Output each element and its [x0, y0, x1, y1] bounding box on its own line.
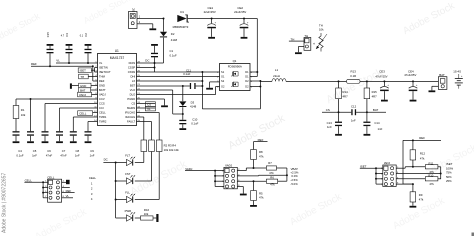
svg-text:ISET: ISET: [446, 162, 453, 166]
svg-text:FAULT: FAULT: [127, 120, 136, 124]
svg-text:R13: R13: [351, 70, 357, 74]
junction REF C15: [49, 65, 51, 67]
resistor R9 47k: [410, 184, 424, 206]
svg-text:CELL: CELL: [89, 176, 97, 180]
wire CCV to C5: [30, 99, 32, 131]
svg-text:47uF/25V: 47uF/25V: [375, 74, 387, 78]
wire CSSN to Q1 S1: [137, 71, 220, 73]
capacitor CE2 22uF/35V: [234, 6, 249, 39]
svg-text:4R7: 4R7: [372, 94, 378, 98]
svg-text:R1: R1: [21, 108, 25, 112]
svg-text:10k 10k 10k: 10k 10k 10k: [164, 148, 180, 152]
svg-text:FDS6990A: FDS6990A: [228, 65, 242, 69]
wire VADJ pin6 row: [237, 180, 266, 182]
diode D2 4148: [160, 19, 178, 64]
capacitor C15 REF bypass: [46, 32, 53, 67]
wire ISET bus pin 5: [376, 178, 383, 180]
svg-text:C14: C14: [374, 121, 380, 125]
svg-text:0.1uF: 0.1uF: [16, 154, 23, 158]
node BAT sense label: [356, 108, 386, 112]
svg-text:S1: S1: [221, 70, 225, 74]
wire REF rail to REF pin: [31, 66, 98, 81]
svg-text:S2: S2: [221, 79, 225, 83]
svg-text:D1: D1: [180, 10, 184, 14]
svg-text:FLT: FLT: [125, 153, 130, 157]
junction ISET bus 2: [375, 173, 377, 175]
junction CS C13: [338, 111, 340, 113]
node REF above R12: [403, 136, 441, 140]
connector VADJ header: [222, 164, 240, 189]
node CELL at CELL pin: [78, 111, 98, 116]
connector CELL select header: [45, 175, 61, 202]
IC U1 MAX1737 charge controller: [94, 49, 140, 126]
svg-text:1nF: 1nF: [327, 125, 332, 129]
resistor R4 10k: [156, 140, 162, 152]
svg-text:VADJ: VADJ: [79, 93, 87, 97]
wire Q1 D1 pins to input rail: [250, 72, 257, 77]
junction R9 branch: [412, 183, 414, 185]
svg-text:CCI: CCI: [99, 106, 104, 110]
svg-text:IFUCHG: IFUCHG: [125, 111, 135, 115]
wire IFACHG to R2: [137, 117, 144, 140]
ground below R9: [410, 206, 417, 208]
svg-text:REF: REF: [66, 189, 72, 193]
svg-text:TMR2: TMR2: [99, 120, 107, 124]
ground below TH header: [295, 52, 302, 54]
svg-text:C5: C5: [33, 149, 37, 153]
svg-text:1nF: 1nF: [75, 154, 80, 158]
wire BST: [137, 85, 203, 87]
svg-text:CELL: CELL: [79, 112, 87, 116]
wire DLO to Q1 G2: [137, 87, 220, 95]
resistor R15 4R7: [364, 81, 377, 112]
label ISET percentages: [446, 162, 454, 183]
junction ISET bus 3: [375, 178, 377, 180]
junction LX riser: [201, 80, 203, 82]
svg-text:10k: 10k: [319, 28, 324, 32]
wire CELL select bus: [42, 182, 44, 198]
svg-text:L1: L1: [275, 68, 279, 72]
wire DC+ to D1: [137, 18, 164, 20]
svg-text:BATT: BATT: [99, 88, 106, 92]
ground below DC connector: [149, 28, 156, 30]
resistor R3 10k: [149, 140, 155, 152]
wire TH pin2 to ground: [298, 47, 304, 53]
svg-text:47k: 47k: [429, 182, 434, 186]
capacitor C3 4.7uF VL bypass: [61, 33, 73, 63]
LED PWR: [116, 209, 136, 221]
junction rail CE3: [383, 80, 385, 82]
wire R1 to C4: [15, 119, 17, 132]
junction CSSN LX riser: [201, 71, 203, 73]
junction REF R12: [412, 139, 414, 141]
svg-text:10k: 10k: [21, 113, 26, 117]
svg-text:CCV: CCV: [99, 97, 105, 101]
svg-text:1nF: 1nF: [32, 154, 37, 158]
wire CELL bus to pin 1: [43, 181, 48, 183]
wire CELL bus to pin 7: [43, 197, 48, 199]
junction pin4 common: [440, 173, 442, 175]
wire L1 to R13: [286, 80, 347, 82]
svg-text:0.1uF: 0.1uF: [191, 122, 198, 126]
junction rail R15: [366, 80, 368, 82]
junction VLO D3 C10: [182, 113, 184, 115]
wire ISET pin2 row: [396, 167, 425, 168]
wire R2 to FLT cathode: [135, 152, 144, 163]
capacitor CE1 22uF/35V: [204, 6, 217, 39]
svg-text:ISETIN: ISETIN: [99, 66, 108, 70]
wire VADJ bus: [214, 171, 216, 187]
wire GND pin to ground: [72, 83, 98, 88]
svg-text:VADJ: VADJ: [225, 164, 233, 168]
wire LX loop below Q1: [202, 86, 260, 109]
junction DCIN C1: [154, 62, 156, 64]
svg-text:FST: FST: [125, 172, 131, 176]
node DC at DCIN pin: [145, 59, 149, 63]
svg-text:CCS: CCS: [99, 102, 105, 106]
svg-text:MBR3540T3: MBR3540T3: [173, 25, 189, 29]
connector TH header: [304, 34, 311, 50]
svg-text:47k: 47k: [270, 183, 275, 187]
svg-text:THM: THM: [99, 75, 106, 79]
svg-text:0.1uF: 0.1uF: [170, 54, 177, 58]
svg-text:BAT: BAT: [439, 73, 445, 77]
resistor R5 47k: [251, 181, 264, 205]
label R2 R3 R4 10k: [164, 143, 180, 152]
junction CCV C5: [30, 98, 32, 100]
svg-text:25%: 25%: [446, 179, 452, 183]
junction rail CE4: [412, 80, 414, 82]
resistor R8 47k: [251, 142, 264, 168]
capacitor CE4 47uF/25V: [404, 69, 418, 101]
wire REF to ISET pin8 row: [403, 140, 413, 184]
junction VADJ bus 1: [214, 170, 216, 172]
wire DCIN: [137, 62, 164, 64]
junction VL C2: [87, 62, 89, 64]
wire R3 to FST cathode: [135, 152, 152, 182]
junction pin4 VBAT bus: [286, 174, 288, 176]
svg-text:ISET: ISET: [80, 69, 87, 73]
svg-text:10k: 10k: [144, 212, 149, 216]
node CS at CS pin: [137, 102, 156, 107]
node BAT at BATT pin: [79, 88, 98, 93]
capacitor C10 0.1uF: [179, 114, 198, 130]
capacitor C7 47nF: [56, 131, 67, 157]
junction BST D3 branch: [182, 85, 184, 87]
svg-text:DCIN: DCIN: [129, 61, 136, 65]
svg-text:CE3: CE3: [379, 70, 385, 74]
capacitor C13 1nF: [327, 112, 342, 136]
svg-text:CELL: CELL: [47, 175, 55, 179]
ground at BAT connector: [429, 90, 436, 92]
wire BAT- to ground: [432, 86, 439, 90]
wire VADJ pin4 row: [237, 174, 287, 177]
ground below R5: [250, 205, 257, 207]
wire TMR2 to C9: [88, 122, 98, 132]
battery 1S-4S symbol: [453, 69, 463, 88]
inductor L1 22uH: [260, 68, 286, 81]
junction R5 branch: [253, 180, 255, 182]
wire R6 to VBAT bus: [278, 180, 287, 182]
wire DHI to Q1 G1: [137, 76, 220, 78]
svg-text:22uH: 22uH: [273, 74, 280, 78]
junction CELL bus 3: [42, 192, 44, 194]
svg-text:C7: C7: [62, 149, 66, 153]
resistor R16 10k: [135, 208, 157, 220]
svg-text:CS: CS: [147, 103, 151, 107]
capacitor C14 1nF: [363, 112, 382, 136]
connector BAT output: [438, 73, 447, 89]
svg-text:D2: D2: [245, 85, 249, 89]
svg-text:0.1uF: 0.1uF: [183, 72, 190, 76]
svg-text:FLL: FLL: [125, 190, 130, 194]
junction R8 pin2 row: [253, 167, 255, 169]
resistor R6 47k: [266, 175, 277, 186]
junction CELL bus 2: [42, 187, 44, 189]
wire R7 to VBAT bus: [277, 168, 287, 181]
ground bar at GND pin: [70, 83, 72, 88]
svg-text:DHI: DHI: [131, 75, 136, 79]
svg-text:U1: U1: [115, 49, 119, 53]
svg-text:D2: D2: [171, 32, 175, 36]
wire FAULT to R3: [137, 122, 152, 141]
svg-text:CSSP: CSSP: [128, 66, 136, 70]
junction C11 right to LX riser: [201, 85, 203, 87]
svg-text:VADJ: VADJ: [99, 93, 106, 97]
label VBAT percentages: [290, 167, 299, 186]
wire VLO to C10 node: [137, 90, 183, 114]
node VL at CELL pin 8: [62, 194, 73, 198]
connector DC input J1: [129, 7, 141, 28]
svg-text:PWR: PWR: [125, 209, 132, 213]
capacitor C2 0.1uF VL bypass: [80, 33, 92, 63]
wire PGND to ground: [137, 99, 165, 105]
svg-text:D2: D2: [245, 79, 249, 83]
svg-text:VL: VL: [66, 194, 70, 198]
ground after R16: [156, 214, 158, 222]
svg-text:GND: GND: [99, 84, 105, 88]
svg-text:4148: 4148: [171, 38, 178, 42]
junction CSSP: [154, 67, 156, 69]
svg-text:REF: REF: [31, 62, 37, 66]
wire C1 node down to CSSN: [154, 63, 156, 72]
node CS sense label: [322, 108, 351, 112]
wire CELL bus to pin 5: [43, 192, 48, 194]
svg-text:47nF: 47nF: [60, 154, 67, 158]
svg-text:REF: REF: [419, 136, 425, 140]
svg-text:CELL: CELL: [99, 111, 106, 115]
wire IFUCHG to R4: [137, 113, 160, 141]
svg-text:+t: +t: [313, 42, 315, 45]
node TH net label: [289, 37, 304, 41]
svg-text:R9: R9: [419, 193, 423, 197]
wire CELL bus to pin 3: [43, 187, 48, 189]
svg-text:PGND: PGND: [127, 97, 135, 101]
junction bus FST: [115, 180, 117, 182]
resistor R13 0.1R sense: [347, 70, 361, 84]
svg-text:TH: TH: [304, 34, 308, 38]
svg-text:1nF: 1nF: [90, 154, 95, 158]
svg-text:Adobe Stock | #900722657: Adobe Stock | #900722657: [2, 173, 8, 233]
svg-text:-5.0%: -5.0%: [290, 182, 298, 186]
capacitor C11 0.1uF bootstrap: [183, 68, 195, 89]
svg-text:BAT: BAT: [80, 88, 86, 92]
capacitor C4 0.1uF: [13, 131, 24, 157]
node TH at THM pin: [79, 74, 98, 79]
svg-text:VLO: VLO: [130, 88, 135, 92]
svg-text:C9: C9: [90, 149, 94, 153]
svg-text:G2: G2: [221, 85, 225, 89]
svg-text:R12: R12: [420, 152, 426, 156]
connector IADJ header: [381, 161, 399, 186]
node CELL net label: [24, 179, 43, 183]
capacitor C1 0.1uF: [151, 44, 177, 63]
svg-text:R10: R10: [428, 174, 434, 178]
wire CCV: [16, 99, 98, 106]
wire CELL pin 4: [62, 186, 70, 188]
svg-text:0.1R: 0.1R: [350, 74, 356, 78]
node VADJ at VADJ pin: [78, 92, 98, 97]
svg-text:C2: C2: [84, 33, 88, 37]
wire R11 to common bus: [438, 167, 441, 179]
wire ISET bus pin 3: [376, 173, 383, 175]
svg-text:22uF/35V: 22uF/35V: [204, 10, 216, 14]
junction rail R14: [338, 80, 340, 82]
wire VADJ bus pin 1: [215, 170, 224, 172]
capacitor C5 1nF: [27, 131, 37, 157]
ground at VADJ pin8: [240, 194, 247, 196]
node DC at LED bus: [103, 158, 115, 163]
svg-text:4148: 4148: [190, 104, 197, 108]
svg-text:47k: 47k: [420, 156, 425, 160]
svg-text:DC: DC: [145, 59, 149, 63]
wire CCI to C7: [60, 108, 98, 131]
transistor Q1 FDS6990A dual MOSFET: [217, 59, 253, 91]
junction REF riser: [92, 65, 94, 67]
wire CSSP: [137, 67, 155, 69]
svg-text:R2 R3 R4: R2 R3 R4: [164, 143, 177, 147]
svg-text:C1: C1: [170, 49, 174, 53]
LED FST: [116, 172, 136, 184]
wire VADJ pin8 to ground: [237, 187, 243, 194]
junction rail D2: [163, 18, 165, 20]
svg-text:D1: D1: [245, 70, 249, 74]
svg-text:TH: TH: [80, 75, 84, 79]
svg-text:REF: REF: [99, 79, 105, 83]
svg-text:GND: GND: [80, 84, 86, 88]
wire TMR1 to C8: [73, 117, 97, 131]
svg-text:IADJ: IADJ: [384, 161, 391, 165]
node ISET at ISETIN ISETOUT: [78, 68, 97, 73]
svg-text:C4: C4: [18, 149, 22, 153]
node ISET net label: [360, 165, 376, 169]
node REF above R8: [254, 138, 268, 142]
LED FLL: [116, 190, 136, 202]
svg-text:R8: R8: [259, 150, 263, 154]
label CELL count legend: [89, 176, 97, 201]
wire S2 to ground: [210, 82, 220, 88]
svg-text:47k: 47k: [269, 171, 274, 175]
diode D3 4148: [179, 86, 196, 114]
svg-text:IFACHG: IFACHG: [125, 115, 135, 119]
resistor R14 4R7: [336, 81, 348, 112]
svg-text:47nF: 47nF: [46, 154, 53, 158]
svg-text:Q1: Q1: [233, 59, 237, 63]
svg-text:VL: VL: [99, 61, 103, 65]
capacitor CE3 47uF/25V: [375, 70, 389, 102]
svg-text:1S-4S: 1S-4S: [453, 69, 461, 73]
jumper shunt on CELL pins 1-2: [62, 180, 70, 184]
junction bus FLL: [115, 199, 117, 201]
svg-text:TH: TH: [291, 37, 295, 41]
wire ISET pin8 row: [396, 183, 413, 185]
wire VADJ bus pin 3: [215, 175, 224, 177]
resistor R2 10k: [141, 140, 147, 152]
svg-text:47k: 47k: [259, 196, 264, 200]
wire ISET pin6 row: [396, 178, 425, 180]
node REF at CELL pin 6: [62, 189, 75, 193]
wire VADJ pin2 row: [237, 168, 266, 171]
svg-text:C3: C3: [65, 33, 69, 37]
svg-text:C6: C6: [47, 149, 51, 153]
svg-text:47k: 47k: [259, 155, 264, 159]
wire CCS to C6: [45, 104, 98, 132]
junction VADJ bus 2: [214, 175, 216, 177]
wire R4 to FLL cathode: [135, 152, 159, 200]
junction rail CE1: [211, 18, 213, 20]
svg-text:BST: BST: [130, 84, 136, 88]
svg-text:ISHDN: ISHDN: [127, 106, 135, 110]
svg-text:C12: C12: [351, 104, 357, 108]
node VADJ net label: [185, 167, 215, 171]
resistor R11 47k: [425, 162, 438, 174]
svg-text:MAX1737: MAX1737: [110, 56, 125, 60]
wire ISET bus pin 7: [376, 183, 383, 185]
ground at Q1 S2: [206, 88, 213, 90]
wire Q1 D2 pins to L1 node: [250, 81, 260, 109]
thermistor TH 10k: [313, 23, 327, 51]
wire LX and riser to S1: [137, 72, 203, 86]
svg-text:C15: C15: [46, 32, 50, 38]
junction D2 L1 node: [259, 80, 261, 82]
junction VADJ bus 3: [214, 180, 216, 182]
junction rail CE2: [243, 18, 245, 20]
junction D2 lower pin: [259, 86, 261, 88]
svg-text:R11: R11: [429, 162, 434, 166]
wire ISET bus: [375, 168, 377, 184]
wire VADJ bus pin 7: [215, 186, 224, 188]
svg-text:R6: R6: [270, 175, 274, 179]
capacitor C8 1nF: [70, 131, 80, 157]
resistor R1 10k: [13, 106, 26, 119]
svg-text:VL: VL: [147, 107, 151, 111]
node VL rail label: [56, 59, 60, 63]
svg-text:BAT: BAT: [373, 108, 379, 112]
junction ISET bus 1: [375, 167, 377, 169]
svg-text:1nF: 1nF: [378, 127, 383, 131]
svg-text:CS: CS: [326, 108, 330, 112]
wire ISET pin4 row: [396, 173, 441, 175]
svg-text:R7: R7: [268, 161, 272, 165]
svg-text:CS: CS: [131, 102, 135, 106]
LED FLT: [116, 153, 136, 165]
ground at PGND: [161, 105, 168, 107]
svg-text:VL: VL: [56, 59, 60, 63]
junction CELL bus 1: [42, 181, 44, 183]
wire R13 to BAT connector: [360, 80, 438, 82]
node REF rail label: [31, 62, 37, 66]
svg-text:TMR1: TMR1: [99, 115, 107, 119]
